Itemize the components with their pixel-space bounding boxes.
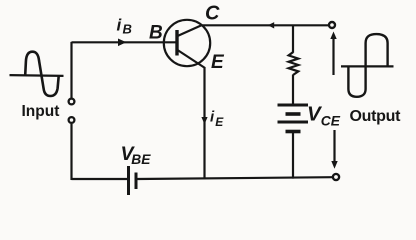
wire: resistor to battery xyxy=(292,75,294,105)
wire: bottom right segment xyxy=(138,177,333,179)
svg-text:Input: Input xyxy=(22,103,60,120)
battery V_CE plate short 2 xyxy=(286,130,301,134)
battery V_CE plate long 1 xyxy=(278,104,309,107)
input terminal upper xyxy=(69,99,75,105)
wire: top horizontal collector wire xyxy=(201,24,330,26)
transistor collector lead xyxy=(178,25,202,36)
wire: left vertical bottom segment xyxy=(70,124,72,180)
transistor emitter lead xyxy=(178,50,206,68)
battery V_CE plate short 1 xyxy=(286,112,301,116)
arrowhead i_B on base wire xyxy=(118,39,126,47)
wire: resistor branch from top wire xyxy=(292,25,294,53)
wire: top-left horizontal (base wire) xyxy=(72,41,177,43)
battery V_BE short plate xyxy=(135,173,138,190)
svg-text:B: B xyxy=(123,22,132,37)
transistor base bar xyxy=(175,30,178,56)
input sine axis xyxy=(10,74,64,77)
svg-text:CE: CE xyxy=(321,114,341,129)
output terminal lower xyxy=(333,174,339,180)
output up arrow xyxy=(332,37,334,75)
svg-text:E: E xyxy=(211,52,225,73)
resistor R zigzag xyxy=(289,52,299,75)
wire: bottom left segment xyxy=(72,178,128,180)
wire: left vertical top segment xyxy=(72,43,73,98)
output sine wave xyxy=(348,34,387,97)
arrowhead on top wire (pointing left) xyxy=(268,22,274,28)
arrowhead i_E (pointing down) xyxy=(201,117,207,124)
svg-text:E: E xyxy=(215,115,224,129)
svg-text:B: B xyxy=(149,23,163,44)
input sine wave xyxy=(25,52,59,96)
output sine axis xyxy=(341,65,394,67)
wire: emitter vertical xyxy=(203,67,205,179)
battery V_CE plate long 2 xyxy=(278,121,309,124)
wire: battery V_CE to bottom xyxy=(292,132,294,179)
transistor Q1 circle xyxy=(164,20,210,66)
output terminal upper xyxy=(329,22,335,28)
battery V_BE long plate xyxy=(127,166,130,195)
svg-text:BE: BE xyxy=(131,152,151,167)
svg-text:C: C xyxy=(205,3,220,25)
output down arrow xyxy=(333,130,335,162)
input terminal lower xyxy=(69,117,75,123)
svg-text:Output: Output xyxy=(350,108,402,125)
